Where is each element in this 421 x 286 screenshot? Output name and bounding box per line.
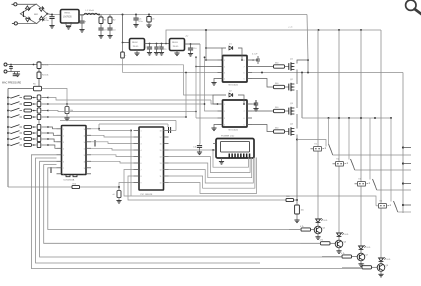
wire bus3 — [48, 111, 196, 112]
ground R19 — [294, 219, 299, 221]
resistor R15 — [252, 66, 274, 68]
wire LCD data 5 — [164, 158, 255, 189]
regulator REG2 — [130, 39, 145, 51]
wire row 8 out — [42, 144, 49, 146]
varistor RV1 — [14, 72, 16, 74]
resistor R3 — [38, 61, 40, 62]
svg-text:4.7k: 4.7k — [300, 226, 304, 228]
svg-text:11: 11 — [84, 161, 86, 163]
capacitor C14 — [168, 127, 170, 133]
wire sense rail left — [8, 88, 34, 90]
transistor Q8 — [377, 264, 385, 272]
U4 pin 1 — [218, 103, 223, 105]
wire U2 pin14 to U5 pin3 — [91, 142, 134, 144]
wire S1 lead — [328, 118, 330, 145]
U5 pin 14 — [164, 156, 169, 158]
svg-text:LED: LED — [387, 259, 391, 261]
U5 pin 9 — [134, 182, 140, 184]
wire row 3 out — [42, 110, 49, 112]
resistor R22 — [301, 242, 321, 244]
capacitor C12 — [10, 65, 12, 67]
wire bus2 to U4 pin2 — [205, 57, 218, 111]
capacitor C8 — [156, 43, 158, 45]
U3 pin 7 — [247, 66, 252, 68]
wire S4 out — [398, 211, 411, 213]
svg-text:7: 7 — [244, 67, 245, 69]
wire x302 branch — [301, 73, 303, 119]
switch SW4 — [7, 116, 9, 118]
svg-text:4: 4 — [63, 148, 64, 150]
U5 pin 18 — [164, 130, 169, 132]
U3 pin 6 — [247, 72, 252, 74]
wire Q1 source to Q2 drain — [296, 70, 298, 85]
resistor R9 — [24, 116, 32, 119]
svg-text:15: 15 — [160, 150, 162, 152]
transistor Q2 MOSFET — [288, 84, 290, 91]
wire LED2 drop — [338, 30, 340, 233]
U2 pin 6 — [57, 160, 62, 162]
terminal J1-1 — [14, 3, 17, 6]
wire loop 2 — [44, 165, 321, 244]
wire +5V rail up — [165, 43, 167, 45]
svg-text:3: 3 — [224, 73, 225, 75]
IC U2 16-pin — [62, 126, 87, 175]
relay contact S1 — [314, 147, 322, 152]
U5 pin 6 — [134, 162, 140, 164]
pulldown resistor R22 — [66, 103, 68, 105]
regulator REG1 LM7805 — [61, 10, 80, 24]
svg-text:2: 2 — [224, 111, 225, 113]
wire LED4 drop — [380, 30, 382, 258]
IC U5 PIC16F628 — [139, 127, 164, 190]
wire U2 pin16 to U5 pin1 — [98, 128, 100, 130]
U5 pin 5 — [134, 156, 140, 158]
transistor Q6 — [335, 240, 343, 248]
ground REG3 — [174, 52, 179, 54]
diode D2 above U4 — [213, 95, 226, 104]
wire to sense rail — [38, 79, 40, 87]
resistor R1 — [100, 15, 102, 18]
U5 pin 11 — [164, 175, 169, 177]
svg-text:13: 13 — [160, 163, 162, 165]
pullup resistor RP7 — [37, 136, 41, 141]
wire LED to Q6 — [338, 236, 340, 240]
capacitor C1 — [51, 15, 53, 17]
wire loop 4 — [36, 158, 261, 263]
svg-text:4: 4 — [141, 150, 142, 152]
U4 pin 2 — [218, 110, 223, 112]
wire LCD data 1 — [164, 150, 249, 167]
svg-text:14: 14 — [84, 142, 86, 144]
svg-text:470u: 470u — [44, 20, 50, 22]
pullup resistor RP8 — [37, 142, 41, 147]
wire bus4 — [48, 116, 186, 118]
svg-text:2: 2 — [141, 137, 142, 139]
resistor R2 — [109, 15, 111, 18]
wire LED3 drop — [360, 30, 362, 246]
svg-text:1: 1 — [141, 131, 142, 133]
wire sense rail right — [42, 89, 68, 105]
wire bus4 up to U3 pin3 — [185, 73, 187, 118]
wire U5 pin8 to R20 — [128, 176, 286, 200]
resistor R24 — [342, 266, 362, 268]
wire S1 stub — [311, 148, 314, 150]
svg-text:REG1: REG1 — [65, 13, 72, 15]
svg-text:+5v: +5v — [185, 36, 188, 38]
capacitor C17 — [50, 167, 52, 173]
svg-text:L1 10uH: L1 10uH — [86, 10, 95, 12]
U2 pin 10 — [86, 167, 91, 169]
svg-text:6: 6 — [244, 73, 245, 75]
ground U3 pin4 — [214, 79, 218, 83]
svg-text:4: 4 — [224, 79, 225, 81]
U2 pin 1 — [57, 128, 62, 130]
ground REG1 — [66, 26, 71, 28]
LCD left pins — [213, 149, 216, 151]
svg-text:10: 10 — [84, 168, 86, 170]
wire AC bottom — [17, 22, 36, 24]
wire loop 1 — [48, 168, 301, 230]
capacitor C7 — [149, 43, 151, 45]
pullup resistor RP6 — [37, 130, 41, 135]
svg-text:2: 2 — [63, 135, 64, 137]
capacitor C5 — [135, 14, 137, 16]
resistor R10 — [24, 126, 32, 129]
svg-text:x0: x0 — [113, 194, 115, 196]
resistor R4 — [38, 69, 40, 73]
capacitor C11 — [199, 144, 202, 145]
wire SW5 to U2 pin 1 — [48, 127, 57, 129]
ground C9 — [159, 52, 164, 54]
ground R22 — [64, 117, 69, 119]
switch SW1 — [7, 97, 9, 99]
svg-text:78L05: 78L05 — [133, 46, 140, 48]
terminal J2-2 — [4, 70, 7, 73]
resistor R13 — [24, 144, 32, 147]
svg-text:15: 15 — [84, 135, 86, 137]
svg-text:MAC PRESSURE: MAC PRESSURE — [2, 82, 22, 85]
wire U2 pin1 branch — [98, 124, 100, 129]
ground Q6 — [338, 248, 340, 251]
resistor R20 — [286, 198, 294, 201]
ground J2 — [17, 72, 19, 75]
relay contact S2 — [336, 162, 344, 167]
U3 pin 5 — [247, 78, 252, 80]
wire S3 out — [377, 189, 411, 191]
ground C6 — [146, 24, 151, 26]
wire row 5 out — [42, 126, 49, 128]
ground Q5 — [317, 234, 319, 237]
U2 pin 8 — [57, 173, 62, 175]
relay contact S4 — [379, 204, 387, 209]
U5 pin 16 — [164, 143, 169, 145]
wire bus1 to U4 pin1 — [211, 100, 218, 104]
U2 pin 7 — [57, 167, 62, 169]
transistor Q3 MOSFET — [288, 108, 290, 115]
wire U2 pin11 to U5 pin6 — [91, 161, 134, 163]
svg-text:5: 5 — [63, 155, 64, 157]
resistor R19 — [295, 205, 300, 214]
wire bus3 to U4 pin3 — [196, 117, 218, 119]
wire S1 out — [333, 154, 411, 156]
svg-text:4.7k: 4.7k — [320, 240, 324, 242]
svg-text:1: 1 — [224, 104, 225, 106]
svg-text:LM7805: LM7805 — [63, 16, 72, 19]
wire S3 stub — [355, 183, 358, 185]
svg-text:ULN2803A: ULN2803A — [64, 179, 75, 182]
svg-text:REG2: REG2 — [132, 42, 139, 44]
svg-text:8: 8 — [141, 176, 142, 178]
ground U4 pin4 — [214, 125, 218, 129]
diode D1 above U3 — [222, 48, 226, 60]
U5 pin 10 — [164, 182, 169, 184]
capacitor C18 — [122, 42, 124, 44]
wire x196 vertical — [195, 57, 197, 118]
ground C10 — [188, 53, 193, 55]
wire row 1 out — [42, 97, 49, 99]
LCD pins — [229, 154, 231, 158]
switch SW3 — [7, 110, 9, 112]
ground Q8 — [380, 271, 382, 274]
svg-text:3: 3 — [224, 118, 225, 120]
wire U2 pin12 to U5 pin5 — [91, 155, 134, 157]
pullup resistor RP5 — [37, 124, 41, 129]
switch SW7 — [7, 138, 9, 140]
pullup resistor RP1 — [37, 95, 41, 100]
wire +5 to U3 — [205, 30, 207, 60]
svg-text:MOC3041: MOC3041 — [229, 130, 239, 132]
ground C1 — [49, 25, 54, 27]
wire row 2 out — [42, 103, 49, 105]
U2 pin 5 — [57, 154, 62, 156]
wire U4 pin5 to Q4 — [252, 125, 274, 132]
svg-text:12: 12 — [84, 155, 86, 157]
pullup resistor RP4 — [37, 114, 41, 119]
svg-text:16: 16 — [84, 129, 86, 131]
U4 pin 5 — [247, 124, 252, 126]
wire 12V feed down — [307, 15, 308, 61]
svg-text:5: 5 — [244, 125, 245, 127]
U2 pin 2 — [57, 134, 62, 136]
wire U3 pin2 — [196, 66, 218, 68]
svg-text:7: 7 — [141, 170, 142, 172]
U2 pin 11 — [86, 160, 91, 162]
wire sense to U4 — [42, 65, 214, 95]
switch SW5 — [7, 126, 9, 128]
wire relay common rail — [302, 117, 391, 119]
wire loop 5 — [31, 155, 362, 269]
svg-text:4.7k: 4.7k — [361, 264, 365, 266]
capacitor C4 — [109, 24, 111, 28]
U2 pin 4 — [57, 147, 62, 149]
svg-text:REG3: REG3 — [172, 42, 179, 44]
U2 bottom tabs — [66, 175, 77, 177]
wire S2 lead — [348, 118, 350, 160]
svg-text:6: 6 — [141, 163, 142, 165]
capacitor C16 — [252, 103, 256, 105]
U3 pin 3 — [218, 72, 223, 74]
resistor R18 — [274, 130, 285, 133]
wire bus6 down — [167, 124, 169, 127]
resistor R7 — [24, 103, 32, 106]
svg-text:9: 9 — [84, 174, 85, 176]
U3 pin 2 — [218, 66, 223, 68]
U5 pin 8 — [134, 175, 140, 177]
wire U5 pin7 to K4 — [124, 170, 376, 206]
wire LED to Q7 — [360, 249, 362, 253]
ground R1C3 — [98, 35, 103, 37]
capacitor C13 — [94, 140, 96, 147]
wire U2 pin15 to U5 pin2 — [91, 135, 134, 137]
ground C8 — [154, 52, 159, 54]
U4 pin 7 — [247, 110, 252, 112]
wire S4 feed — [376, 205, 379, 207]
wire y187 to U5 pin9 — [119, 183, 134, 188]
wire U2 pin13 to U5 pin4 — [91, 148, 134, 150]
U4 pin 3 — [218, 117, 223, 119]
U2 pin 14 — [86, 141, 91, 143]
svg-text:8: 8 — [63, 174, 64, 176]
svg-text:4.7k: 4.7k — [341, 253, 345, 255]
U5 pin 12 — [164, 169, 169, 171]
terminal J2-1 — [4, 63, 7, 66]
U2 pin 3 — [57, 141, 62, 143]
wire branch to REG2 — [122, 14, 124, 16]
svg-text:5: 5 — [141, 157, 142, 159]
wire S4 lead — [390, 118, 392, 202]
regulator REG3 — [170, 39, 185, 51]
svg-text:7: 7 — [63, 168, 64, 170]
wire U5 pin18 right — [164, 130, 177, 132]
capacitor C15 — [252, 59, 254, 61]
svg-text:R4 10k: R4 10k — [42, 75, 48, 77]
U5 pin 4 — [134, 149, 140, 151]
svg-text:16: 16 — [160, 144, 162, 146]
wire Q4 source down — [296, 135, 298, 201]
pullup resistor RP3 — [37, 108, 41, 113]
resistor R16 — [274, 85, 285, 88]
U3 pin 8 — [247, 59, 252, 61]
capacitor C2 — [81, 15, 83, 21]
wire C18 to U3 pin3 — [123, 58, 218, 73]
transistor Q4 MOSFET — [288, 128, 290, 135]
wire Q3 source chain — [296, 114, 298, 129]
U5 pin 3 — [134, 143, 140, 145]
svg-text:12: 12 — [160, 170, 162, 172]
ground C5 — [133, 24, 138, 26]
U5 pin 15 — [164, 149, 169, 151]
svg-text:3: 3 — [63, 142, 64, 144]
resistor R11 — [24, 132, 32, 135]
wire row 7 out — [42, 138, 49, 140]
svg-text:10: 10 — [160, 183, 162, 185]
pullup resistor RP2 — [37, 101, 41, 106]
wire REG3 out — [185, 43, 201, 45]
svg-text:LED: LED — [324, 220, 328, 222]
U4 pin 8 — [247, 103, 252, 105]
U5 pin 13 — [164, 162, 169, 164]
terminal J1-2 — [14, 22, 17, 25]
svg-text:78L05: 78L05 — [173, 46, 180, 48]
svg-text:LED: LED — [367, 247, 371, 249]
wire y187 row — [8, 186, 119, 188]
ground C7 — [147, 52, 152, 54]
IC U4 MOC3041 — [223, 100, 248, 127]
wire J2 top — [7, 64, 37, 66]
U3 pin 1 — [218, 59, 223, 61]
wire DC+ rail — [47, 13, 52, 16]
terminal stubs right edge — [402, 146, 404, 148]
wire row 6 out — [42, 132, 49, 134]
svg-text:+ c-5: + c-5 — [288, 27, 292, 29]
ground LCD — [221, 158, 223, 162]
wire bus2 — [48, 103, 205, 105]
wire LCD data 2 — [164, 157, 251, 173]
wire LED1 drop — [317, 30, 319, 219]
left common rail — [7, 89, 9, 188]
wire S2 out — [355, 169, 411, 171]
IC U3 MOC3041 — [223, 56, 248, 83]
wire row 4 out — [42, 116, 49, 118]
LED D6 — [379, 258, 384, 261]
capacitor C6 — [148, 14, 150, 16]
U4 pin 6 — [247, 117, 252, 119]
ground REG2 — [134, 52, 139, 54]
svg-text:R3 10k: R3 10k — [42, 65, 48, 67]
ground Q7 — [360, 261, 362, 264]
resistor R8 — [24, 109, 32, 112]
resistor R14 — [72, 185, 80, 188]
relay contact S3 — [358, 182, 366, 187]
wire Q2 source chain — [296, 90, 298, 108]
svg-text:5: 5 — [244, 79, 245, 81]
wire LED to Q5 — [317, 222, 319, 226]
svg-text:POWER LCD: POWER LCD — [221, 136, 235, 138]
svg-text:13: 13 — [84, 148, 86, 150]
svg-text:10k: 10k — [301, 210, 304, 212]
wire AC top — [17, 3, 36, 5]
inductor L1 — [84, 13, 98, 15]
capacitor C9 — [161, 43, 163, 45]
wire LCD data 4 — [164, 158, 254, 184]
svg-text:MOC3041: MOC3041 — [229, 85, 239, 87]
wire SW6 to U2 pin 2 — [48, 133, 57, 135]
U2 pin 16 — [86, 128, 91, 130]
svg-text:6: 6 — [244, 118, 245, 120]
wire SW7 to U2 pin 3 — [48, 139, 57, 142]
ground R23 — [116, 200, 121, 202]
node DC+ — [46, 13, 48, 15]
wire to Q1 gate — [285, 66, 289, 68]
wire VLCD down — [199, 44, 201, 144]
svg-text:14: 14 — [160, 157, 162, 159]
svg-text:PIC 16F628: PIC 16F628 — [141, 194, 153, 196]
U5 pin 17 — [164, 136, 169, 138]
wire REG2 out — [145, 43, 170, 45]
ground C16 — [253, 108, 258, 110]
switch SW2 — [7, 103, 9, 105]
wire U3 pin6 rail — [252, 72, 403, 74]
svg-text:0.1 uF: 0.1 uF — [252, 54, 258, 56]
resistor R21 — [289, 229, 301, 231]
wire +5 rail drops — [318, 29, 320, 31]
transistor Q1 MOSFET — [288, 63, 290, 70]
node after L1 — [98, 14, 100, 16]
wire U5 pin1 loop — [130, 130, 132, 132]
wire S3 lead — [369, 118, 371, 180]
switch SW6 — [7, 132, 9, 134]
wire J2 bottom — [7, 71, 20, 73]
